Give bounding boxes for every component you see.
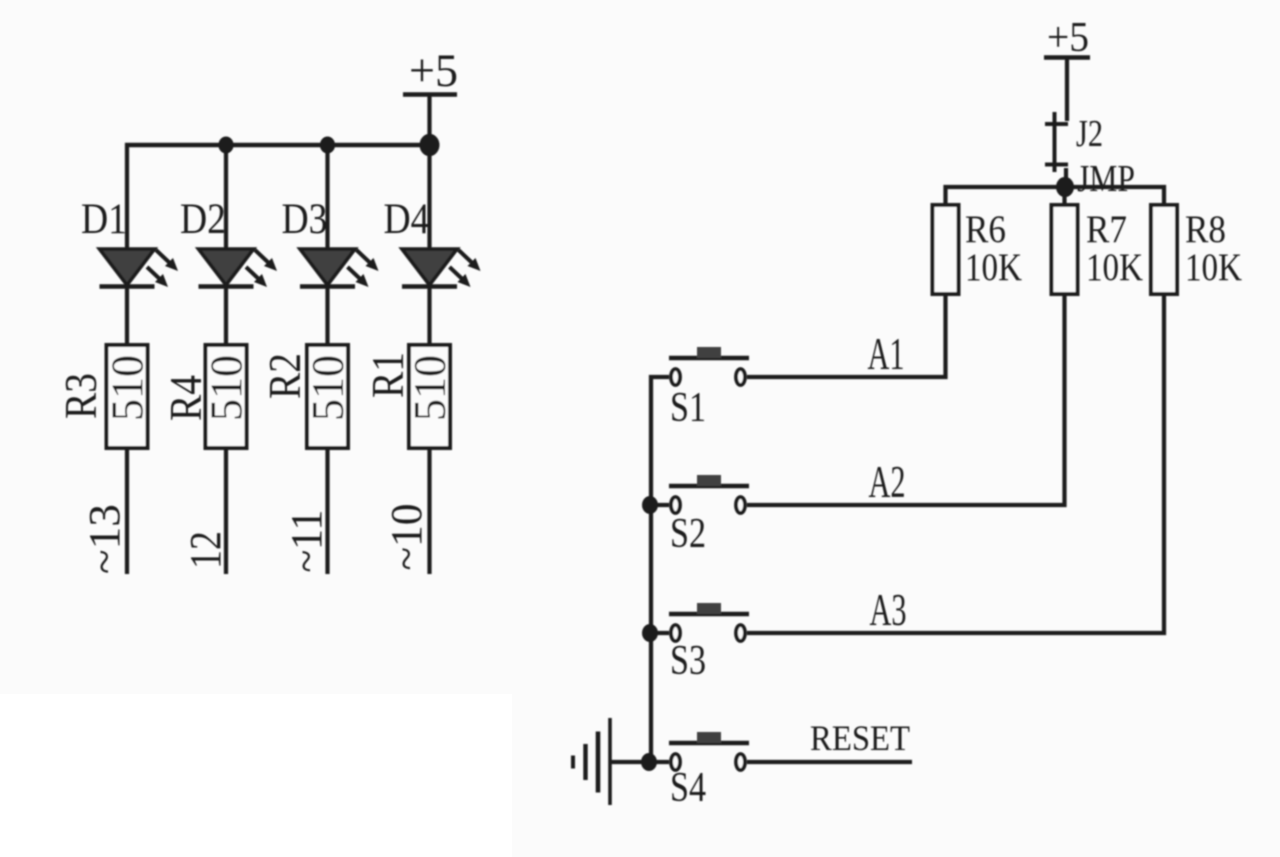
pushbutton S2 <box>669 475 749 513</box>
svg-text:A1: A1 <box>868 329 905 379</box>
junction switch bus at S2 <box>642 496 658 514</box>
wire D2 cathode to R4 <box>224 287 228 348</box>
junction D2 anode bus <box>218 137 233 154</box>
junction pull-up bus at R7 <box>1056 177 1074 197</box>
wire switch bus <box>651 377 669 762</box>
wire bus to LED D1 <box>125 143 129 251</box>
svg-text:~13: ~13 <box>80 504 129 574</box>
svg-text:R2: R2 <box>259 353 310 399</box>
resistor R3 <box>107 345 148 448</box>
jumper J2 <box>1045 112 1068 172</box>
svg-text:R4: R4 <box>160 375 211 421</box>
svg-text:S1: S1 <box>670 385 706 431</box>
resistor R8 <box>1151 205 1177 294</box>
junction D4 anode bus <box>420 134 440 156</box>
wire bus to LED D3 <box>325 145 329 251</box>
wire D1 cathode to R3 <box>125 287 129 348</box>
pushbutton S1 <box>669 347 749 385</box>
wire bus to LED D2 <box>224 145 228 251</box>
svg-text:S4: S4 <box>670 765 706 811</box>
wire +5 to jumper J2 <box>1065 58 1069 122</box>
svg-text:S3: S3 <box>670 638 706 684</box>
resistor R2 <box>307 345 348 448</box>
svg-text:~11: ~11 <box>282 510 331 573</box>
svg-text:R8: R8 <box>1185 208 1226 251</box>
wire bus to LED D4 <box>427 145 431 251</box>
svg-text:~10: ~10 <box>382 504 431 571</box>
svg-text:R7: R7 <box>1086 208 1127 251</box>
junction switch bus at S3 <box>642 624 658 642</box>
svg-text:12: 12 <box>181 531 230 569</box>
wire pull-up bus to R7 <box>1062 187 1066 205</box>
wire R3 to pin ~13 <box>125 448 129 574</box>
svg-text:+5: +5 <box>1047 15 1089 61</box>
wire R2 to pin ~11 <box>325 448 329 574</box>
resistor R1 <box>409 345 450 448</box>
power +5 rail (right) <box>1044 15 1090 61</box>
LED D3 <box>300 249 379 287</box>
ground <box>573 718 610 805</box>
resistor R7 <box>1052 205 1078 294</box>
pushbutton S3 <box>669 603 749 641</box>
svg-text:510: 510 <box>102 355 153 421</box>
wire bus stub to S3 <box>651 631 669 635</box>
wire D4 cathode to R1 <box>427 287 431 348</box>
svg-text:A3: A3 <box>870 585 907 635</box>
svg-text:10K: 10K <box>1086 246 1143 289</box>
wire ground to S4 <box>611 760 669 764</box>
svg-text:JMP: JMP <box>1077 158 1135 200</box>
svg-text:D4: D4 <box>384 196 430 243</box>
wire pull-up bus <box>946 187 1165 205</box>
svg-text:D3: D3 <box>282 196 328 243</box>
resistor R4 <box>206 345 247 448</box>
LED D1 <box>100 249 179 287</box>
svg-text:D1: D1 <box>81 196 127 243</box>
wire R4 to pin 12 <box>224 448 228 574</box>
svg-text:10K: 10K <box>965 246 1022 289</box>
svg-text:R3: R3 <box>55 373 106 419</box>
svg-text:10K: 10K <box>1185 246 1242 289</box>
wire J2 to pull-up bus <box>1064 168 1068 187</box>
LED D2 <box>199 249 278 287</box>
LED D4 <box>402 249 481 287</box>
svg-text:RESET: RESET <box>810 718 910 758</box>
wire net A1 (R6 to S1) <box>747 294 946 377</box>
wire R1 to pin ~10 <box>427 448 431 574</box>
svg-text:D2: D2 <box>180 196 226 243</box>
resistor R6 <box>933 205 959 294</box>
svg-text:R6: R6 <box>965 208 1006 251</box>
junction D3 anode bus <box>320 137 335 154</box>
svg-text:J2: J2 <box>1076 113 1103 155</box>
svg-text:A2: A2 <box>869 457 906 507</box>
wire +5 to LED anode bus <box>427 95 431 148</box>
wire D3 cathode to R2 <box>325 287 329 348</box>
svg-text:S2: S2 <box>670 511 706 557</box>
power +5 rail (left) <box>403 45 458 97</box>
pushbutton S4 <box>669 732 749 770</box>
wire net RESET <box>747 760 912 764</box>
svg-text:+5: +5 <box>409 45 458 97</box>
wire net A3 (R8 to S3) <box>747 294 1164 633</box>
svg-text:R1: R1 <box>362 352 413 398</box>
wire net A2 (R7 to S2) <box>747 294 1065 505</box>
wire bus stub to S2 <box>651 503 669 507</box>
wire LED anode bus <box>125 143 430 147</box>
junction switch bus at S4 <box>641 753 657 771</box>
